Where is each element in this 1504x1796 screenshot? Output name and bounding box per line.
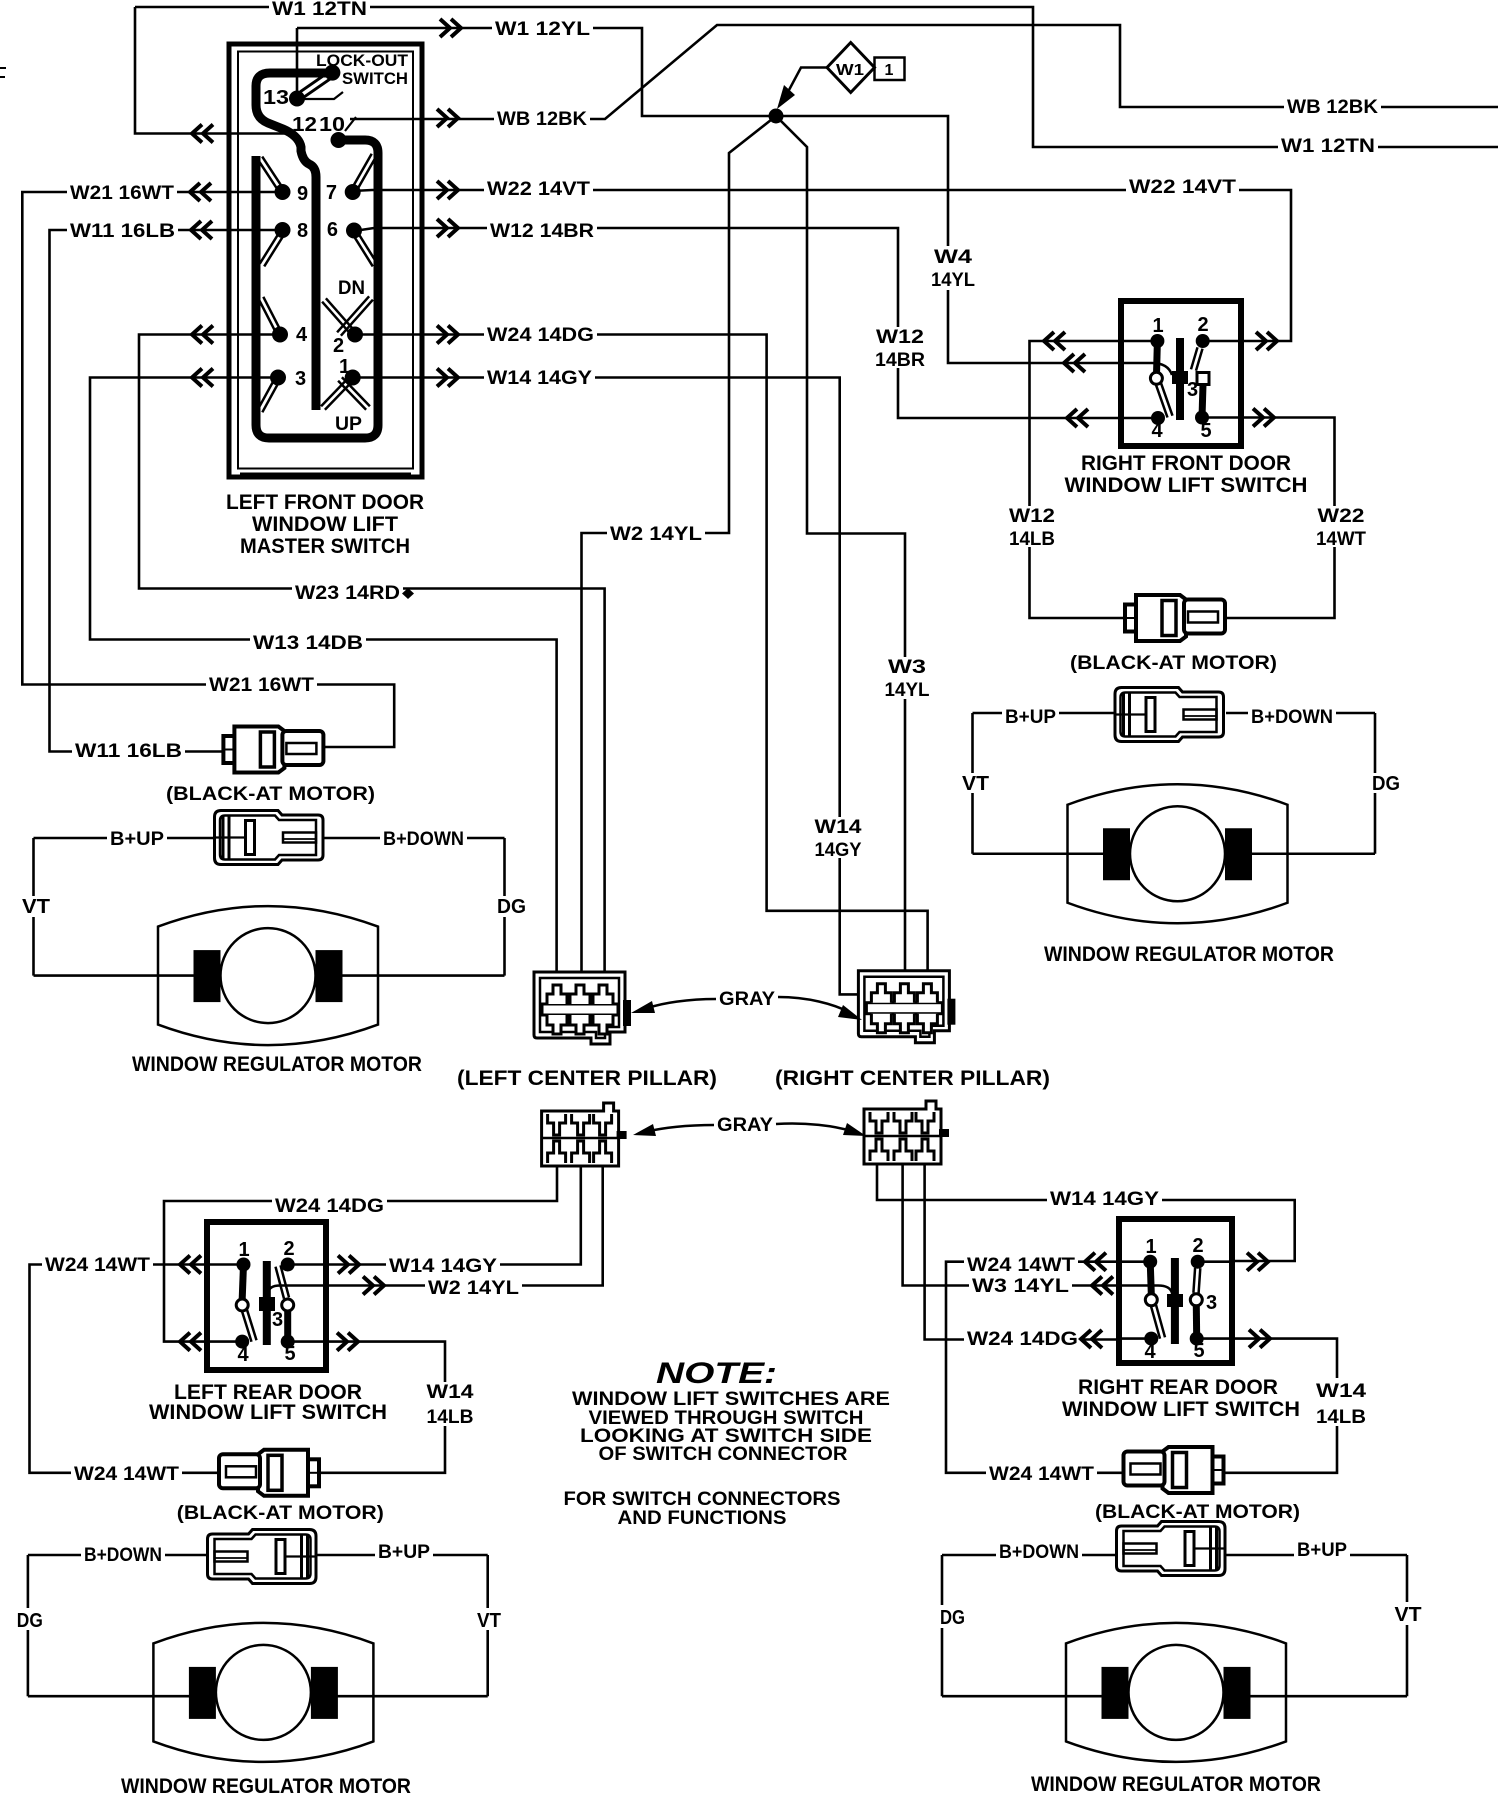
label B+DOWN right rear — [996, 1542, 1082, 1562]
label W24 14WT left rear lower — [71, 1464, 182, 1484]
svg-text:B+DOWN: B+DOWN — [1251, 707, 1333, 728]
pin 1 — [1150, 334, 1164, 348]
splice diamond W1 — [827, 43, 875, 93]
svg-text:WINDOW LIFT SWITCH: WINDOW LIFT SWITCH — [1062, 1398, 1300, 1421]
label W23 14RD+ — [292, 583, 403, 603]
svg-text:W12 14BR: W12 14BR — [490, 221, 594, 242]
svg-text:W22 14VT: W22 14VT — [487, 179, 590, 200]
label W3 14YL right rear — [969, 1276, 1072, 1296]
svg-text:DG: DG — [497, 896, 526, 918]
svg-text:W12: W12 — [1009, 506, 1055, 527]
label W21 16WT lower — [206, 675, 317, 695]
svg-text:W21 16WT: W21 16WT — [209, 675, 314, 696]
svg-text:5: 5 — [1193, 1340, 1204, 1362]
svg-text:14LB: 14LB — [427, 1407, 474, 1428]
wire B+UP right front motor — [973, 712, 1376, 715]
label DG left rear — [13, 1608, 47, 1630]
svg-text:B+UP: B+UP — [110, 829, 164, 850]
svg-text:WINDOW REGULATOR MOTOR: WINDOW REGULATOR MOTOR — [1044, 943, 1334, 966]
label W3 14YL — [881, 657, 933, 699]
wire DG right rear motor — [941, 1555, 944, 1696]
wire W14 14GY to left rear switch — [288, 1166, 581, 1265]
svg-text:W3 14YL: W3 14YL — [972, 1276, 1069, 1297]
svg-text:4: 4 — [296, 324, 308, 346]
svg-text:LEFT FRONT DOOR: LEFT FRONT DOOR — [226, 491, 424, 514]
svg-text:5: 5 — [284, 1343, 295, 1365]
svg-text:14WT: 14WT — [1316, 529, 1366, 550]
svg-text:WB 12BK: WB 12BK — [497, 109, 587, 130]
pin 2 — [1191, 1255, 1205, 1269]
svg-text:RIGHT FRONT DOOR: RIGHT FRONT DOOR — [1081, 452, 1291, 475]
svg-text:14GY: 14GY — [815, 840, 862, 861]
wire VT left front motor — [32, 838, 35, 976]
svg-text:W1 12TN: W1 12TN — [272, 0, 367, 20]
svg-text:(RIGHT CENTER PILLAR): (RIGHT CENTER PILLAR) — [775, 1067, 1050, 1090]
svg-text:12: 12 — [292, 114, 317, 136]
pin 8 — [275, 222, 291, 238]
arrow W22 14VT — [437, 181, 458, 199]
svg-text:WINDOW LIFT SWITCH: WINDOW LIFT SWITCH — [1065, 474, 1308, 497]
pin 9 — [275, 184, 291, 200]
svg-text:3: 3 — [1206, 1292, 1217, 1314]
arrows right rear switch — [1085, 1253, 1106, 1271]
wire to pin3 right front switch — [1125, 363, 1172, 375]
label B+UP right rear — [1294, 1540, 1350, 1560]
svg-text:W24 14WT: W24 14WT — [967, 1255, 1075, 1276]
wire VT right front motor — [971, 713, 974, 854]
svg-text:13: 13 — [263, 87, 289, 109]
pin 10 — [331, 132, 347, 148]
label W12 14BR — [487, 221, 597, 241]
svg-text:OF SWITCH CONNECTOR: OF SWITCH CONNECTOR — [599, 1444, 848, 1465]
pin 1 — [1143, 1255, 1157, 1269]
svg-text:2: 2 — [283, 1238, 294, 1260]
svg-text:4: 4 — [237, 1344, 249, 1366]
connector B+DOWN/B+UP left rear — [208, 1530, 317, 1584]
svg-text:2: 2 — [333, 335, 344, 357]
svg-text:6: 6 — [327, 219, 338, 241]
arrow W1 12YL — [440, 19, 461, 37]
svg-text:1: 1 — [1152, 315, 1163, 337]
label W13 14DB — [250, 633, 366, 653]
label W14 14LB right rear — [1313, 1378, 1370, 1426]
svg-text:3: 3 — [295, 368, 306, 390]
label DG right front — [1368, 773, 1404, 793]
wire DG right front motor — [1374, 713, 1377, 854]
label W22 14VT right — [1126, 177, 1239, 197]
wire W14 14LB right rear — [1197, 1339, 1337, 1473]
inline connector BLACK-AT MOTOR left front — [223, 727, 323, 773]
lever pin1 — [242, 1265, 243, 1300]
label B+UP right front — [1002, 707, 1059, 727]
svg-text:1: 1 — [885, 62, 894, 79]
svg-text:4: 4 — [1151, 420, 1163, 442]
pin 5 — [281, 1335, 295, 1349]
wire W21 16WT — [22, 192, 394, 747]
window regulator motor right front — [1068, 784, 1288, 923]
wire armature left front motor — [34, 974, 505, 977]
wire W14 14GY to right rear switch — [877, 1164, 1295, 1261]
wire WB 12BK — [350, 25, 1498, 119]
svg-text:W14 14GY: W14 14GY — [389, 1256, 497, 1277]
svg-text:2: 2 — [1197, 314, 1208, 336]
pin 2 — [347, 327, 363, 343]
svg-text:W14: W14 — [815, 817, 863, 838]
arrows right front switch left — [1044, 332, 1065, 350]
pin 4 — [235, 1335, 249, 1349]
inline connector BLACK-AT MOTOR left rear — [219, 1450, 319, 1496]
svg-text:WINDOW REGULATOR MOTOR: WINDOW REGULATOR MOTOR — [1031, 1773, 1321, 1796]
connector left center pillar lower — [542, 1103, 627, 1166]
svg-text:W2 14YL: W2 14YL — [610, 524, 702, 545]
svg-text:GRAY: GRAY — [717, 1115, 773, 1136]
svg-text:WINDOW LIFT SWITCHES ARE: WINDOW LIFT SWITCHES ARE — [572, 1389, 890, 1410]
svg-text:(LEFT CENTER PILLAR): (LEFT CENTER PILLAR) — [457, 1067, 717, 1090]
wire W24 14WT left rear — [30, 1265, 244, 1473]
svg-text:WINDOW REGULATOR MOTOR: WINDOW REGULATOR MOTOR — [132, 1053, 422, 1076]
pin 1 — [345, 370, 361, 386]
connector right center pillar lower — [864, 1101, 949, 1164]
svg-text:14LB: 14LB — [1316, 1407, 1366, 1428]
label VT right rear — [1391, 1602, 1426, 1625]
svg-text:3: 3 — [272, 1309, 283, 1331]
svg-text:W1: W1 — [836, 62, 864, 79]
pin 4 — [1144, 1332, 1158, 1346]
arrow W14 14GY — [437, 369, 458, 387]
wire B+DOWN right rear motor — [942, 1554, 1407, 1557]
connector B+DOWN/B+UP right rear — [1117, 1522, 1226, 1576]
wire W12 14BR — [354, 228, 1158, 418]
svg-text:(BLACK-AT MOTOR): (BLACK-AT MOTOR) — [1095, 1502, 1300, 1523]
wire W22 14VT — [352, 190, 1291, 341]
pin 3 centre post — [263, 1261, 271, 1345]
pin 2 — [1196, 334, 1210, 348]
wire B+UP left front motor — [34, 837, 505, 840]
lock-out switch — [324, 65, 340, 81]
svg-text:1: 1 — [339, 356, 350, 378]
svg-text:14YL: 14YL — [931, 270, 975, 291]
label B+UP left rear — [375, 1542, 433, 1562]
window regulator motor left front — [158, 906, 378, 1045]
pin 3 — [270, 370, 286, 386]
svg-text:1: 1 — [1145, 1236, 1156, 1258]
svg-text:UP: UP — [335, 414, 362, 435]
pin 6 — [346, 223, 362, 239]
svg-text:B+DOWN: B+DOWN — [84, 1545, 162, 1566]
arrow WB 12BK — [437, 109, 458, 127]
svg-text:W14: W14 — [427, 1382, 475, 1403]
svg-text:W24 14DG: W24 14DG — [487, 325, 594, 346]
lever pin1 — [1150, 1262, 1151, 1294]
label W24 14DG right rear — [964, 1329, 1081, 1349]
label W14 14GY vertical — [812, 817, 865, 858]
svg-text:(BLACK-AT MOTOR): (BLACK-AT MOTOR) — [166, 784, 375, 805]
svg-text:W24 14DG: W24 14DG — [967, 1329, 1078, 1350]
label W14 14LB left rear — [422, 1382, 479, 1426]
wire armature left rear motor — [28, 1695, 488, 1698]
svg-text:GRAY: GRAY — [719, 989, 775, 1010]
svg-text:LOCK-OUT: LOCK-OUT — [316, 51, 409, 70]
svg-text:14BR: 14BR — [875, 350, 925, 371]
svg-text:W12: W12 — [876, 327, 924, 348]
svg-text:RIGHT REAR DOOR: RIGHT REAR DOOR — [1078, 1376, 1278, 1399]
wire W24 14WT right rear — [946, 1262, 1150, 1473]
stray marks — [0, 68, 6, 77]
svg-text:VT: VT — [1395, 1604, 1422, 1626]
wire DG left rear motor — [27, 1555, 30, 1696]
label W11 16LB — [67, 221, 178, 241]
label W12 14LB — [1007, 506, 1059, 547]
label WB 12BK — [494, 109, 590, 129]
pin 1 — [237, 1258, 251, 1272]
connector index box 1 — [875, 58, 905, 81]
label W24 14DG — [484, 325, 597, 345]
svg-text:7: 7 — [326, 182, 337, 204]
svg-text:W24 14WT: W24 14WT — [74, 1464, 179, 1485]
pin 3 centre post — [1171, 1258, 1179, 1344]
label W1 12TN — [269, 0, 370, 19]
wire VT right rear motor — [1406, 1555, 1409, 1696]
wire W13 14DB — [90, 378, 557, 1003]
arrow master pin4 — [192, 326, 213, 344]
wire armature right rear motor — [942, 1695, 1407, 1698]
lever pin2 — [1193, 1268, 1200, 1293]
pin 3 centre post — [1176, 338, 1184, 420]
svg-text:3: 3 — [1187, 379, 1198, 401]
svg-text:W14 14GY: W14 14GY — [487, 368, 592, 389]
svg-text:W3: W3 — [888, 657, 926, 678]
wire W2 14YL to left rear switch pin3 — [268, 1166, 603, 1293]
connector B+UP/B+DOWN left front — [215, 811, 324, 865]
label W21 16WT — [67, 183, 177, 203]
svg-text:WB 12BK: WB 12BK — [1287, 97, 1378, 118]
svg-text:8: 8 — [297, 220, 308, 242]
svg-text:NOTE:: NOTE: — [656, 1357, 777, 1390]
wire W22 14WT — [1202, 418, 1335, 619]
wire W23 14RD+ — [139, 335, 605, 1003]
svg-text:FOR SWITCH CONNECTORS: FOR SWITCH CONNECTORS — [564, 1489, 841, 1510]
label B+UP left front — [107, 829, 167, 849]
svg-text:W22 14VT: W22 14VT — [1129, 177, 1236, 198]
leader from diamond to junction — [789, 68, 827, 91]
wire W14 14GY — [353, 378, 859, 995]
master switch inner box — [238, 52, 413, 469]
pin 7 — [345, 184, 361, 200]
svg-text:W4: W4 — [934, 247, 973, 268]
wire W14 14LB left rear — [288, 1342, 445, 1473]
pin 5 — [1190, 1332, 1204, 1346]
pin 2 — [281, 1258, 295, 1272]
arrows left rear switch — [180, 1256, 201, 1274]
window regulator motor right rear — [1066, 1623, 1286, 1762]
wire W24 14DG to right rear switch — [925, 1164, 1151, 1340]
svg-text:B+UP: B+UP — [1297, 1540, 1347, 1561]
label W14 14GY left rear — [386, 1256, 500, 1276]
svg-text:DN: DN — [338, 278, 365, 299]
lever pin2 — [276, 1265, 290, 1298]
svg-text:W24 14WT: W24 14WT — [45, 1255, 150, 1276]
label B+DOWN left rear — [81, 1545, 165, 1565]
svg-text:W24 14DG: W24 14DG — [275, 1196, 384, 1217]
left rear door window lift switch box — [207, 1222, 326, 1370]
arrow into master pin12 wire — [192, 125, 213, 143]
label VT left front — [18, 896, 54, 917]
label W22 14WT — [1315, 506, 1368, 547]
connector B+UP/B+DOWN right front — [1115, 688, 1224, 742]
label W24 14DG left rear — [272, 1196, 387, 1216]
label W22 14VT — [484, 179, 593, 199]
svg-text:WINDOW REGULATOR MOTOR: WINDOW REGULATOR MOTOR — [121, 1775, 411, 1796]
label W4 14YL — [929, 246, 977, 290]
svg-text:SWITCH: SWITCH — [342, 69, 408, 88]
right front door window lift switch box — [1121, 301, 1241, 446]
wire B+DOWN left rear motor — [28, 1554, 488, 1557]
wire W24 14DG to left rear switch — [164, 1166, 557, 1342]
connector right center pillar upper — [858, 971, 955, 1043]
wire W1 12TN — [135, 7, 1498, 147]
master switch outer box — [229, 44, 422, 477]
svg-text:W22: W22 — [1318, 506, 1365, 527]
svg-text:AND FUNCTIONS: AND FUNCTIONS — [618, 1508, 787, 1529]
label VT right front — [958, 773, 993, 793]
svg-text:W14 14GY: W14 14GY — [1050, 1189, 1159, 1210]
wire armature right front motor — [973, 852, 1376, 855]
svg-text:14LB: 14LB — [1009, 529, 1055, 550]
svg-text:B+UP: B+UP — [1005, 707, 1056, 728]
svg-text:(BLACK-AT MOTOR): (BLACK-AT MOTOR) — [177, 1503, 384, 1524]
svg-text:W11 16LB: W11 16LB — [75, 741, 182, 762]
label W2 14YL left rear — [425, 1278, 522, 1298]
svg-text:W11 16LB: W11 16LB — [70, 221, 175, 242]
svg-text:W21 16WT: W21 16WT — [70, 183, 174, 204]
pin 5 — [1195, 411, 1209, 425]
pin 4 — [272, 327, 288, 343]
svg-text:MASTER SWITCH: MASTER SWITCH — [240, 535, 410, 558]
label B+DOWN left front — [380, 829, 467, 849]
arrows right front switch right — [1256, 332, 1277, 350]
svg-text:2: 2 — [1192, 1235, 1203, 1257]
svg-text:W24 14WT: W24 14WT — [989, 1464, 1094, 1485]
wire W3 14YL to right rear switch pin3 — [903, 1164, 1172, 1293]
label W1 12TN right — [1278, 136, 1378, 156]
interior wire stubs — [1122, 341, 1240, 418]
wire W4 14YL — [782, 116, 1125, 363]
svg-text:WINDOW LIFT: WINDOW LIFT — [252, 513, 398, 536]
label VT left rear — [474, 1608, 505, 1630]
label W1 12YL — [492, 19, 593, 39]
svg-text:WINDOW LIFT SWITCH: WINDOW LIFT SWITCH — [149, 1401, 387, 1424]
interior wire stubs — [208, 1265, 325, 1342]
window regulator motor left rear — [153, 1623, 373, 1762]
svg-text:VT: VT — [477, 1610, 501, 1632]
label DG right rear — [936, 1605, 970, 1628]
label W12 14BR vertical — [872, 327, 929, 368]
label W24 14WT left rear — [42, 1255, 153, 1275]
wire W2 14YL — [582, 116, 777, 1002]
inline connector BLACK-AT MOTOR right rear — [1124, 1447, 1224, 1493]
wire W3 14YL — [776, 116, 905, 1002]
svg-text:W13 14DB: W13 14DB — [253, 633, 363, 654]
svg-text:W2 14YL: W2 14YL — [428, 1278, 519, 1299]
connector left center pillar upper — [534, 972, 631, 1044]
svg-text:DG: DG — [940, 1607, 965, 1629]
label W2 14YL — [607, 524, 705, 544]
svg-text:DG: DG — [17, 1610, 43, 1632]
wire W11 16LB — [50, 230, 283, 752]
master switch bus hook from pin 13 — [256, 73, 332, 410]
label WB 12BK right — [1284, 97, 1381, 117]
arrow W24 14DG — [437, 326, 458, 344]
label W11 16LB lower — [72, 741, 185, 761]
label B+DOWN right front — [1248, 707, 1336, 727]
wire W12 14LB — [1030, 341, 1158, 618]
wire W1 12YL — [297, 28, 776, 116]
svg-text:W23 14RD: W23 14RD — [295, 583, 400, 604]
svg-text:9: 9 — [297, 183, 308, 205]
wire W24 14DG — [355, 335, 928, 1003]
svg-text:4: 4 — [1144, 1341, 1156, 1363]
svg-text:14YL: 14YL — [885, 680, 930, 701]
svg-text:VT: VT — [962, 773, 989, 795]
label W14 14GY right rear — [1047, 1189, 1162, 1209]
svg-text:5: 5 — [1200, 420, 1211, 442]
lever pin2 — [1191, 347, 1203, 370]
label W24 14WT right rear — [964, 1255, 1078, 1275]
label W24 14WT right rear lower — [986, 1464, 1097, 1484]
inline connector BLACK-AT MOTOR right front — [1125, 595, 1225, 641]
svg-text:VT: VT — [22, 896, 50, 918]
svg-text:B+DOWN: B+DOWN — [383, 829, 464, 850]
interior wire stubs — [1120, 1262, 1231, 1339]
wire VT left rear motor — [486, 1555, 489, 1696]
arrow master pin8 — [191, 221, 212, 239]
arrow master pin3 — [192, 369, 213, 387]
arrow master pin9 — [190, 183, 211, 201]
svg-text:W14: W14 — [1316, 1381, 1367, 1402]
label DG left front — [493, 896, 529, 917]
master switch bus race-track — [256, 140, 378, 438]
label W14 14GY — [484, 368, 595, 388]
pin 4 — [1151, 411, 1165, 425]
svg-text:B+DOWN: B+DOWN — [999, 1542, 1079, 1563]
svg-text:B+UP: B+UP — [378, 1542, 430, 1563]
junction node W1 — [769, 109, 784, 124]
svg-text:1: 1 — [238, 1239, 249, 1261]
svg-text:(BLACK-AT MOTOR): (BLACK-AT MOTOR) — [1070, 653, 1277, 674]
lever pin1 — [1156, 341, 1157, 378]
wire DG left front motor — [503, 838, 506, 976]
arrow W12 14BR — [437, 219, 458, 237]
right rear door window lift switch box — [1119, 1219, 1232, 1363]
svg-text:W1 12YL: W1 12YL — [495, 19, 590, 40]
svg-text:W1 12TN: W1 12TN — [1281, 136, 1375, 157]
svg-text:DG: DG — [1372, 773, 1400, 795]
